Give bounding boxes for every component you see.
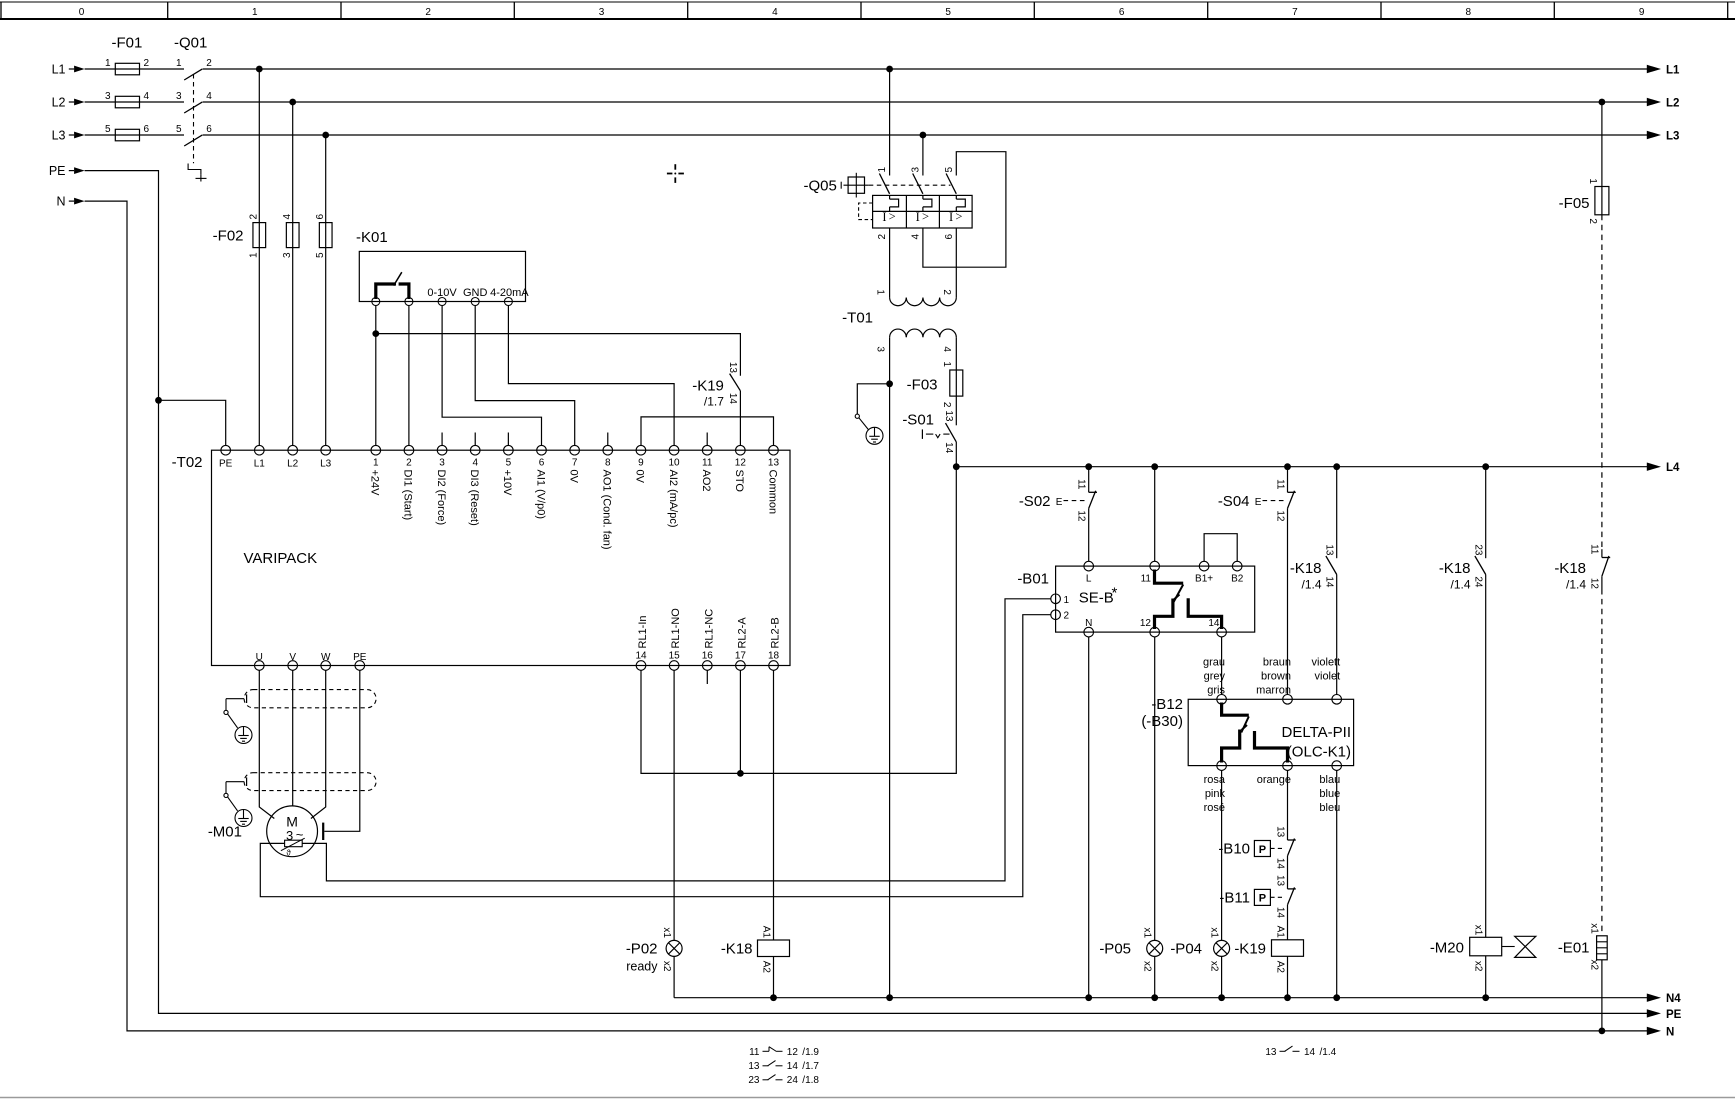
svg-text:13: 13 — [1274, 826, 1285, 838]
svg-text:x2: x2 — [1589, 959, 1600, 970]
svg-text:6: 6 — [144, 124, 150, 135]
coil K18 — [721, 926, 790, 974]
wire F03 to S01 — [955, 396, 957, 425]
wire K19 to STO — [739, 391, 741, 446]
junction +24V branch — [372, 330, 379, 337]
svg-text:-B11: -B11 — [1219, 890, 1250, 907]
fuse F01 pole 2 — [105, 91, 150, 108]
wire blau to N4 — [1336, 770, 1338, 997]
svg-text:1: 1 — [874, 289, 885, 295]
svg-text:4: 4 — [772, 7, 778, 18]
wire U phase — [259, 670, 274, 818]
wire L4 to K18 23 — [1485, 467, 1487, 559]
wire L1 to Q05 pin1 — [889, 69, 891, 176]
svg-text:13: 13 — [1324, 544, 1335, 556]
svg-text:B2: B2 — [1231, 574, 1244, 585]
svg-text:0: 0 — [79, 7, 85, 18]
svg-text:AI2 (mA/pc): AI2 (mA/pc) — [667, 470, 679, 528]
wire B01 N to N4 — [1088, 637, 1090, 998]
svg-text:x1: x1 — [1208, 927, 1219, 938]
svg-text:x1: x1 — [1472, 925, 1483, 936]
wire L4 to S02 — [1088, 467, 1090, 493]
svg-text:-K19: -K19 — [1234, 941, 1266, 958]
module B12 internal changeover contact — [1222, 703, 1288, 763]
svg-text:2: 2 — [941, 289, 952, 295]
svg-text:14: 14 — [1274, 858, 1285, 870]
wire L4 to S04 — [1287, 467, 1289, 493]
crosshair grid marker — [667, 164, 684, 183]
svg-text:-E01: -E01 — [1558, 940, 1590, 957]
module B01 internal changeover contact — [1155, 570, 1222, 630]
svg-text:SE-B: SE-B — [1079, 590, 1114, 607]
svg-text:1: 1 — [249, 252, 260, 258]
solenoid valve M20 — [1430, 925, 1536, 972]
inverter T02 motor terminals — [254, 652, 366, 670]
svg-text:*: * — [1112, 585, 1118, 602]
svg-text:PE: PE — [1666, 1009, 1682, 1021]
wire PE — [85, 171, 1648, 1014]
svg-text:14: 14 — [1274, 907, 1285, 919]
module B01 bottom terminals — [1084, 618, 1227, 637]
junction RL2-A — [737, 770, 744, 777]
junction B01 N N4 — [1085, 994, 1092, 1001]
node N4 right — [1647, 993, 1682, 1005]
svg-text:AO1 (Cond. fan): AO1 (Cond. fan) — [601, 470, 613, 550]
svg-text:12: 12 — [735, 458, 747, 469]
cable shield 1 earth — [224, 694, 252, 743]
svg-text:14: 14 — [943, 442, 954, 454]
svg-text:12: 12 — [1589, 578, 1600, 590]
svg-text:-S02: -S02 — [1019, 493, 1051, 510]
svg-text:PE: PE — [219, 459, 233, 470]
svg-text:rosa: rosa — [1204, 774, 1226, 786]
svg-text:3: 3 — [439, 458, 445, 469]
svg-text:1: 1 — [877, 167, 888, 173]
svg-text:x1: x1 — [1589, 923, 1600, 934]
contact K18 13-14 — [1290, 544, 1337, 591]
junction L4 K18b — [1482, 463, 1489, 470]
svg-text:12: 12 — [1140, 618, 1152, 629]
breaker Q05 pole 1 — [877, 167, 899, 240]
wire F05 dashed down — [1601, 215, 1603, 549]
svg-text:E: E — [1255, 497, 1262, 508]
svg-text:L2: L2 — [287, 459, 299, 470]
svg-text:-B01: -B01 — [1017, 571, 1049, 588]
svg-text:/1.7: /1.7 — [704, 394, 724, 408]
wire 0-10V to AI1 — [442, 306, 541, 446]
switch Q01 label — [174, 35, 207, 52]
svg-text:Common: Common — [766, 470, 778, 515]
svg-text:L3: L3 — [52, 129, 66, 143]
node PE right — [1647, 1009, 1682, 1021]
svg-text:x2: x2 — [1472, 961, 1483, 972]
svg-text:L3: L3 — [320, 459, 332, 470]
svg-text:11: 11 — [1141, 574, 1152, 585]
inverter T02 relay terminals — [635, 608, 781, 671]
svg-text:violett: violett — [1311, 657, 1340, 669]
lamp P04 — [1170, 927, 1229, 972]
svg-text:2: 2 — [144, 58, 150, 69]
svg-text:ready: ready — [626, 960, 658, 974]
svg-text:brown: brown — [1261, 671, 1291, 683]
svg-text:-K18: -K18 — [1290, 560, 1322, 577]
junction L4 K18a — [1333, 463, 1340, 470]
junction T01 secondary earth tap — [886, 380, 893, 387]
svg-text:braun: braun — [1263, 657, 1291, 669]
svg-text:grau: grau — [1203, 657, 1225, 669]
svg-text:11: 11 — [1076, 479, 1087, 490]
svg-text:(OLC-K1): (OLC-K1) — [1287, 744, 1351, 761]
svg-text:3: 3 — [874, 346, 885, 352]
fuse F02 pole 2 — [282, 214, 299, 259]
svg-text:6: 6 — [315, 214, 326, 220]
breaker Q05 manual operator — [841, 173, 950, 198]
wire B10 to B11 — [1287, 856, 1289, 889]
wire P04 to N4 — [1221, 956, 1223, 997]
lamp P05 — [1099, 927, 1162, 972]
lamp P02 ready — [626, 927, 682, 973]
contact K18 11-12 — [1554, 544, 1610, 591]
module B01 top terminals — [1084, 561, 1244, 584]
svg-text:4: 4 — [472, 458, 478, 469]
switch Q01 pole 3 — [176, 124, 212, 146]
svg-text:N: N — [56, 195, 65, 209]
wire L3 drop to T02 — [325, 135, 327, 445]
wire L2 to F05 — [1601, 102, 1603, 215]
svg-text:DI1 (Start): DI1 (Start) — [402, 470, 414, 521]
pressure switch B10 — [1218, 826, 1295, 869]
junction L3 to Q05 — [920, 132, 927, 139]
svg-text:L4: L4 — [1666, 462, 1680, 474]
svg-text:3: 3 — [910, 167, 921, 173]
wire +24V to K19 — [376, 334, 741, 376]
svg-text:13: 13 — [727, 362, 738, 374]
svg-text:U: U — [256, 652, 263, 663]
svg-text:L1: L1 — [1666, 65, 1680, 77]
svg-text:1: 1 — [1064, 595, 1070, 606]
svg-text:/1.4: /1.4 — [1301, 578, 1321, 592]
node L3 right — [1647, 131, 1680, 143]
node L1 left entry — [52, 63, 85, 77]
motor M01 — [267, 806, 318, 857]
svg-text:4: 4 — [144, 91, 150, 102]
svg-text:4: 4 — [206, 91, 212, 102]
svg-text:+10V: +10V — [501, 470, 513, 497]
wire RL2-A drop — [739, 670, 741, 773]
svg-text:13: 13 — [768, 458, 780, 469]
wire RL1-In RL2-A to L4 — [641, 467, 956, 774]
svg-text:24: 24 — [787, 1075, 799, 1086]
wire S04 to B12 braun — [1287, 508, 1289, 694]
module B01 label — [1017, 571, 1049, 588]
svg-text:A1: A1 — [1274, 926, 1285, 939]
wire L4 rail — [956, 466, 1647, 468]
svg-text:11: 11 — [749, 1047, 760, 1058]
svg-text:L: L — [1086, 574, 1092, 585]
svg-text:-Q01: -Q01 — [174, 35, 207, 52]
svg-text:-P04: -P04 — [1170, 941, 1202, 958]
svg-text:A2: A2 — [1274, 961, 1285, 974]
wire T01 pin4 to F03 — [955, 337, 957, 396]
module B12 bottom terminals — [1217, 761, 1342, 771]
svg-text:STO: STO — [733, 470, 745, 493]
svg-text:-Q05: -Q05 — [804, 178, 837, 195]
wire K18 coil to N4 — [773, 957, 775, 998]
svg-text:2: 2 — [1064, 611, 1070, 622]
svg-text:16: 16 — [702, 651, 714, 662]
svg-text:7: 7 — [572, 458, 578, 469]
node L2 right — [1647, 98, 1680, 110]
svg-text:PE: PE — [49, 164, 66, 178]
svg-text:1: 1 — [373, 458, 379, 469]
svg-text:P: P — [1259, 844, 1266, 856]
fuse F02 pole 3 — [315, 214, 332, 259]
wire thermistor right — [302, 599, 1050, 881]
svg-text:I: I — [916, 210, 920, 224]
fuse F01 label — [112, 35, 143, 52]
controller K01 terminals — [372, 287, 530, 306]
wire P02 to N4 — [673, 956, 675, 997]
fuse F02 pole 1 — [249, 214, 266, 259]
svg-text:2: 2 — [249, 214, 260, 220]
heater E01 — [1558, 923, 1607, 970]
fuse F01 pole 1 — [105, 58, 150, 75]
inverter T02 unconnected stubs — [442, 433, 707, 446]
wire RL1-NO to P02 — [673, 670, 675, 940]
svg-text:2: 2 — [1587, 218, 1598, 224]
switch S01 13-14 — [902, 410, 956, 453]
junction K19 coil N4 — [1284, 994, 1291, 1001]
cable shield 1 — [244, 690, 376, 708]
svg-text:2: 2 — [406, 458, 412, 469]
svg-text:2: 2 — [206, 58, 212, 69]
wire B01 12 to P05 — [1154, 637, 1156, 941]
node L3 left entry — [52, 129, 85, 143]
svg-text:RL1-NO: RL1-NO — [670, 608, 682, 649]
svg-text:-F03: -F03 — [907, 377, 938, 394]
cable shield 2 — [244, 773, 376, 791]
earth T01 secondary — [855, 384, 889, 445]
svg-text:14: 14 — [1304, 1047, 1316, 1058]
svg-text:-T01: -T01 — [842, 310, 873, 327]
fuse F03 — [907, 361, 963, 408]
wire P05 to N4 — [1154, 956, 1156, 997]
wire N4 rail — [674, 997, 1647, 999]
node N left entry — [56, 195, 84, 209]
fuse F05 — [1559, 178, 1609, 224]
node L4 right — [1647, 462, 1680, 474]
wire N — [85, 201, 1648, 1031]
junction L4 B01 — [1151, 463, 1158, 470]
svg-text:5: 5 — [105, 124, 111, 135]
wire V phase — [292, 670, 294, 806]
breaker Q05 trip linkage — [859, 203, 873, 220]
junction blau N4 — [1333, 994, 1340, 1001]
svg-text:18: 18 — [768, 651, 780, 662]
svg-text:x2: x2 — [1142, 961, 1153, 972]
junction L1 to Q05 — [886, 66, 893, 73]
svg-text:-M01: -M01 — [208, 824, 242, 841]
svg-text:13: 13 — [1265, 1047, 1277, 1058]
thermistor in M01 — [281, 838, 305, 857]
svg-text:-S04: -S04 — [1218, 493, 1250, 510]
node L2 left entry — [52, 96, 85, 110]
svg-text:23: 23 — [1473, 544, 1484, 556]
svg-text:ϑ: ϑ — [286, 849, 291, 858]
svg-text:AI1 (V/p0): AI1 (V/p0) — [534, 470, 546, 520]
svg-text:1: 1 — [941, 361, 952, 367]
wire K19 coil to N4 — [1287, 956, 1289, 997]
breaker Q05 pole 2 — [910, 167, 932, 240]
svg-text:GND: GND — [463, 287, 488, 299]
wire S01 to L4 — [955, 442, 957, 467]
junction L4 S04 — [1284, 463, 1291, 470]
wire PE to motor — [324, 670, 360, 831]
cable shield 2 earth — [224, 777, 252, 826]
svg-text:-B10: -B10 — [1218, 841, 1250, 858]
svg-text:E: E — [1056, 497, 1063, 508]
svg-text:PE: PE — [353, 652, 367, 663]
svg-text:8: 8 — [605, 458, 611, 469]
svg-text:14: 14 — [1208, 618, 1220, 629]
svg-text:-P05: -P05 — [1099, 941, 1131, 958]
svg-text:5: 5 — [176, 124, 182, 135]
svg-text:RL2-B: RL2-B — [770, 617, 782, 648]
svg-text:2: 2 — [425, 7, 431, 18]
wire B11 to K19 coil — [1287, 905, 1289, 940]
wire T01 pin3 down — [889, 337, 891, 998]
svg-text:6: 6 — [1119, 7, 1125, 18]
svg-text:-F02: -F02 — [213, 228, 244, 245]
svg-text:17: 17 — [735, 651, 747, 662]
node N right — [1647, 1026, 1675, 1038]
inverter T02 RL1-NC stub — [706, 670, 708, 684]
svg-text:/1.7: /1.7 — [802, 1061, 819, 1072]
svg-text:13: 13 — [1274, 875, 1285, 887]
controller K01 internal switch — [376, 272, 409, 299]
svg-text:4: 4 — [941, 346, 952, 352]
svg-text:I: I — [949, 210, 953, 224]
svg-text:-K18: -K18 — [721, 941, 753, 958]
wire L3 rail — [85, 134, 1648, 136]
svg-text:5: 5 — [945, 7, 951, 18]
wire orange to B10 — [1287, 770, 1289, 840]
transformer T01 primary — [874, 289, 956, 305]
svg-text:11: 11 — [702, 458, 713, 469]
contact K18 23-24 — [1439, 544, 1486, 591]
svg-text:2: 2 — [941, 402, 952, 408]
pressure switch B11 — [1219, 875, 1295, 918]
inverter T02 supply terminals — [219, 445, 332, 469]
svg-text:-P02: -P02 — [626, 941, 658, 958]
svg-text:4-20mA: 4-20mA — [490, 287, 529, 299]
controller K01 box — [359, 251, 525, 301]
svg-text:3: 3 — [599, 7, 605, 18]
svg-text:violet: violet — [1315, 671, 1341, 683]
svg-text:1: 1 — [176, 58, 182, 69]
module B12 wire colour labels bottom — [1204, 774, 1341, 814]
svg-text:L1: L1 — [52, 63, 66, 77]
svg-text:grey: grey — [1204, 671, 1226, 683]
svg-text:-F05: -F05 — [1559, 195, 1590, 212]
inverter T02 name — [244, 550, 318, 567]
svg-text:N: N — [1666, 1026, 1674, 1038]
breaker Q05 body — [873, 195, 973, 228]
wire rosa to P04 — [1221, 770, 1223, 940]
svg-text:-F01: -F01 — [112, 35, 143, 52]
junction L3 to F02-3 — [322, 132, 329, 139]
svg-text:marron: marron — [1256, 685, 1291, 697]
svg-text:8: 8 — [1466, 7, 1472, 18]
wire S02 to B01 L — [1088, 508, 1090, 561]
wire W phase — [311, 670, 326, 818]
module B12 box — [1188, 699, 1353, 765]
svg-text:x1: x1 — [661, 927, 672, 938]
svg-text:RL2-A: RL2-A — [736, 617, 748, 649]
junction P04 N4 — [1218, 994, 1225, 1001]
svg-text:11: 11 — [1274, 479, 1285, 490]
svg-text:+24V: +24V — [369, 470, 381, 497]
wire DI1 — [408, 306, 410, 446]
svg-text:23: 23 — [748, 1075, 760, 1086]
svg-text:15: 15 — [669, 651, 681, 662]
svg-text:13: 13 — [748, 1061, 760, 1072]
svg-text:-K18: -K18 — [1439, 560, 1471, 577]
module B01 box — [1056, 566, 1255, 632]
svg-text:/1.9: /1.9 — [802, 1047, 819, 1058]
motor frame ground bar — [322, 823, 324, 840]
svg-text:pink: pink — [1205, 788, 1226, 800]
svg-text:-B12: -B12 — [1151, 696, 1183, 713]
svg-text:11: 11 — [1589, 544, 1600, 555]
wire 4-20mA to AI2 — [508, 306, 674, 446]
svg-text:1: 1 — [105, 58, 111, 69]
wire L1 rail — [85, 68, 1648, 70]
svg-text:12: 12 — [1076, 510, 1087, 522]
svg-text:0V: 0V — [567, 470, 579, 484]
wire K18 24 to M20 — [1485, 575, 1487, 938]
svg-text:6: 6 — [539, 458, 545, 469]
svg-text:3: 3 — [105, 91, 111, 102]
svg-text:/1.4: /1.4 — [1566, 578, 1586, 592]
switch S02 11-12 — [1019, 479, 1097, 522]
node PE left entry — [49, 164, 85, 178]
svg-text:9: 9 — [1639, 7, 1645, 18]
contact K19 13-14 — [692, 362, 740, 408]
wire K18 14 to B12 violett — [1336, 575, 1338, 695]
svg-text:4: 4 — [910, 234, 921, 240]
junction L2 to F05 — [1599, 99, 1606, 106]
junction L2 to F02-2 — [289, 99, 296, 106]
wire +24V — [375, 306, 377, 446]
svg-text:7: 7 — [1292, 7, 1298, 18]
wire thermistor left — [260, 615, 1050, 897]
wire L4 to K18 13 — [1336, 467, 1338, 559]
breaker Q05 label — [804, 178, 837, 195]
wire Q05 pole2-pole3 loop — [923, 152, 1006, 268]
svg-text:-K18: -K18 — [1554, 560, 1586, 577]
fuse F02 label — [213, 228, 244, 245]
wire L3 to Q05 pin3 — [922, 135, 924, 176]
svg-text:-S01: -S01 — [902, 412, 934, 429]
svg-text:L2: L2 — [1666, 98, 1679, 110]
inverter T02 box — [212, 450, 791, 665]
svg-text:L1: L1 — [254, 459, 266, 470]
svg-text:RL1-NC: RL1-NC — [703, 609, 715, 649]
svg-text:14: 14 — [727, 393, 738, 405]
junction T01 wire N4 — [886, 994, 893, 1001]
wire B01 14 to B12 grau — [1221, 637, 1223, 695]
